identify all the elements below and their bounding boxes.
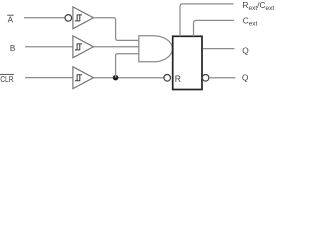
wire B buffer output to AND input 2 [94,46,139,48]
wire CLR branch to AND input 3 [116,54,139,78]
Schmitt buffer U1 (A, inverting) [73,7,94,29]
Schmitt buffer U2 (B) [73,36,94,58]
svg-text:B: B [10,44,16,53]
wire A input [24,17,65,19]
svg-text:R: R [175,74,181,84]
R input bubble [164,75,171,82]
wire Rext/Cext (top) [180,4,234,36]
wire A buffer output to AND input 1 [94,18,139,41]
wire Q output [203,48,235,50]
AND gate G1 [139,36,173,62]
wire B input [25,46,73,48]
wire CLR buffer output to R bubble [94,77,164,79]
svg-text:Cext: Cext [243,16,258,28]
output bubble Q-bar [202,75,209,82]
junction dot [113,75,118,80]
wire CLR input [25,77,73,79]
Schmitt buffer U3 (CLR) [73,67,94,89]
svg-text:Q: Q [242,46,249,56]
svg-text:A: A [8,15,14,24]
wire Cext (top) [194,20,235,36]
timing block U4 [173,36,202,89]
svg-text:Q: Q [242,72,249,82]
svg-text:CLR: CLR [0,75,13,84]
svg-text:Rext/Cext: Rext/Cext [242,0,274,12]
wire Q-bar output [209,77,236,79]
input label A-bar [7,15,14,24]
inverter bubble (A buffer input) [65,15,72,22]
input label CLR-bar [0,74,14,84]
